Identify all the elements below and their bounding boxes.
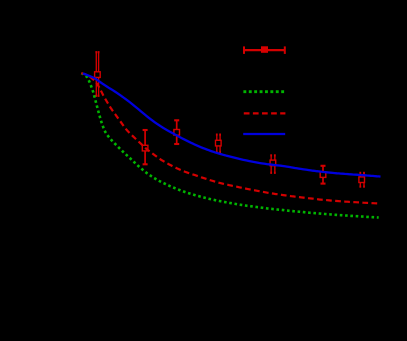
legend: blue solid sample bbox=[243, 133, 285, 135]
curve: blue solid (model 3) bbox=[83, 73, 381, 176]
data point P2 marker (open square) bbox=[142, 145, 148, 151]
data point P7 marker (open square) bbox=[359, 177, 365, 183]
legend: data sample with horizontal error bar bbox=[244, 46, 286, 54]
data point P4 marker (open square) bbox=[216, 140, 222, 146]
data point P6 marker (open square) bbox=[320, 172, 326, 178]
data point P3 marker (open square) bbox=[174, 130, 180, 136]
data point P1 error bars bbox=[95, 52, 99, 96]
data point P2 error bars bbox=[143, 130, 148, 164]
data point P5 marker (open square) bbox=[270, 160, 276, 166]
data point P4 error bars bbox=[216, 135, 221, 153]
data point P7 error bars bbox=[359, 173, 365, 187]
data point P5 error bars bbox=[270, 155, 276, 172]
data point P6 error bars bbox=[321, 166, 326, 184]
legend: red dashed sample bbox=[244, 112, 286, 114]
data point P1 marker (open square) bbox=[95, 72, 101, 78]
curve: green dotted (model 1) bbox=[81, 73, 378, 217]
data point P3 error bars bbox=[174, 120, 179, 144]
curve: red dashed (model 2) bbox=[81, 73, 379, 203]
legend: green dotted sample bbox=[243, 90, 285, 93]
